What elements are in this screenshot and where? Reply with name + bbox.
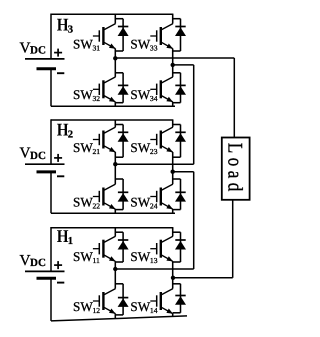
wire diode jog bottom SW34 (173, 102, 181, 104)
wire emitter stub SW21 (114, 152, 116, 164)
svg-text:SW: SW (73, 36, 93, 51)
wire diode jog top SW12 (115, 283, 123, 285)
wire diode branch SW32 (122, 73, 124, 103)
IGBT Q14 (150, 289, 173, 314)
wire emitter stub SW22 (114, 209, 116, 213)
junction node A H3 (113, 56, 117, 60)
wire diode branch SW11 (122, 232, 124, 262)
wire diode jog top SW34 (173, 72, 181, 74)
wire diode branch SW23 (180, 125, 182, 158)
svg-text:23: 23 (150, 147, 158, 156)
wire output A H3 to load bus (115, 57, 234, 59)
wire diode jog bottom SW13 (173, 261, 181, 263)
svg-text:SW: SW (130, 87, 150, 102)
diode D32 (118, 85, 129, 94)
label H1 (57, 226, 73, 247)
label SW14 (130, 299, 157, 315)
label VDC H2 (20, 145, 46, 162)
IGBT Q33 (150, 24, 173, 49)
svg-text:21: 21 (93, 147, 101, 156)
svg-text:SW: SW (130, 36, 150, 51)
svg-text:H: H (57, 226, 69, 246)
svg-text:H: H (57, 120, 69, 140)
wire diode branch SW13 (180, 232, 182, 262)
wire top rail H2 (51, 119, 173, 121)
wire diode jog bottom SW11 (115, 261, 123, 263)
battery minus sign H3 (57, 72, 64, 74)
svg-text:3: 3 (68, 24, 73, 35)
diode D12 (118, 298, 129, 307)
wire output B H2 (173, 171, 194, 173)
diode D31 (118, 27, 129, 37)
wire diode jog bottom SW12 (115, 314, 123, 316)
svg-text:32: 32 (93, 94, 101, 103)
svg-text:11: 11 (93, 256, 101, 265)
wire diode jog top SW13 (173, 231, 181, 233)
svg-text:SW: SW (130, 249, 150, 264)
junction node A H1 (113, 267, 117, 271)
wire diode branch SW24 (180, 179, 182, 210)
wire collector stub SW22 (114, 164, 116, 184)
svg-text:DC: DC (30, 45, 46, 57)
svg-text:22: 22 (93, 201, 101, 210)
wire diode jog top SW31 (115, 18, 123, 20)
svg-text:24: 24 (150, 201, 158, 210)
wire collector stub SW12 (114, 269, 116, 289)
wire left upper H3 (50, 14, 52, 59)
wire diode branch SW14 (180, 284, 182, 313)
junction node B H3 (171, 63, 175, 67)
wire emitter stub SW33 (172, 49, 174, 65)
wire emitter stub SW31 (114, 49, 116, 59)
wire collector stub SW33 (172, 14, 174, 23)
wire diode jog top SW22 (115, 178, 123, 180)
wire diode jog bottom SW21 (115, 156, 123, 158)
wire diode jog top SW23 (173, 124, 181, 126)
wire emitter stub SW23 (172, 152, 174, 172)
wire diode branch SW34 (180, 73, 182, 103)
wire bottom rail H2 (51, 212, 175, 214)
wire output B H1 to load bus (173, 277, 233, 279)
wire diode jog top SW33 (173, 18, 181, 20)
wire bottom rail H3 (51, 105, 175, 107)
diode D11 (118, 240, 129, 250)
wire diode jog bottom SW31 (115, 50, 123, 52)
wire diode branch SW33 (180, 19, 182, 51)
IGBT Q32 (93, 77, 116, 102)
wire diode jog bottom SW22 (115, 209, 123, 211)
junction node B H1 (171, 276, 175, 280)
wire left lower H1 (50, 278, 52, 321)
IGBT Q23 (150, 127, 173, 152)
wire diode jog top SW21 (115, 124, 123, 126)
battery plus sign H2 (54, 154, 62, 162)
svg-text:SW: SW (73, 140, 93, 155)
diode D34 (175, 85, 186, 94)
wire left upper H2 (50, 119, 52, 164)
diode D23 (175, 132, 186, 142)
svg-text:SW: SW (130, 299, 150, 314)
svg-text:SW: SW (73, 299, 93, 314)
svg-text:2: 2 (68, 130, 73, 141)
svg-text:12: 12 (93, 306, 101, 315)
voltage source VDC battery H2 (25, 164, 65, 172)
wire diode jog bottom SW14 (173, 312, 181, 314)
svg-text:SW: SW (73, 194, 93, 209)
wire left lower H2 (50, 172, 52, 213)
label H3 (57, 14, 73, 35)
IGBT Q13 (150, 236, 173, 261)
svg-text:SW: SW (73, 87, 93, 102)
wire cascade bus H2B-H1A (193, 172, 195, 269)
svg-text:Load: Load (224, 143, 247, 196)
svg-text:V: V (20, 145, 31, 162)
label SW21 (73, 140, 100, 156)
label SW12 (73, 299, 100, 315)
svg-text:34: 34 (150, 94, 158, 103)
label SW13 (130, 249, 157, 265)
diode D21 (118, 132, 129, 142)
IGBT Q24 (150, 184, 173, 209)
IGBT Q31 (93, 24, 116, 49)
wire collector stub SW13 (172, 228, 174, 237)
wire diode jog bottom SW23 (173, 156, 181, 158)
wire collector stub SW32 (114, 58, 116, 77)
wire collector stub SW24 (172, 172, 174, 184)
svg-text:1: 1 (68, 236, 73, 247)
wire left lower H3 (50, 69, 52, 107)
wire emitter stub SW13 (172, 261, 174, 278)
label SW33 (130, 36, 157, 52)
wire emitter stub SW32 (114, 102, 116, 107)
IGBT Q22 (93, 184, 116, 209)
wire collector stub SW31 (114, 14, 116, 23)
label SW32 (73, 87, 100, 103)
wire diode jog top SW32 (115, 72, 123, 74)
wire cascade bus H3B-H2A (193, 65, 195, 164)
svg-text:14: 14 (150, 306, 158, 315)
wire collector stub SW23 (172, 120, 174, 127)
load box (222, 138, 250, 200)
diode D14 (175, 296, 186, 305)
wire diode jog top SW24 (173, 178, 181, 180)
wire load bottom bus (232, 200, 234, 278)
svg-text:V: V (20, 252, 31, 269)
wire diode jog bottom SW33 (173, 50, 181, 52)
IGBT Q34 (150, 77, 173, 102)
wire emitter stub SW12 (114, 314, 116, 319)
IGBT Q21 (93, 127, 116, 152)
voltage source VDC battery H3 (25, 59, 65, 69)
svg-text:V: V (20, 39, 31, 56)
wire diode branch SW12 (122, 284, 124, 315)
wire emitter stub SW11 (114, 261, 116, 269)
wire top rail H3 (51, 13, 173, 15)
junction node A H2 (113, 162, 117, 166)
IGBT Q11 (93, 236, 116, 261)
wire collector stub SW11 (114, 228, 116, 237)
wire load top bus (233, 58, 235, 138)
wire diode branch SW31 (122, 19, 124, 51)
wire collector stub SW14 (172, 278, 174, 289)
svg-text:H: H (57, 14, 69, 34)
wire collector stub SW21 (114, 120, 116, 127)
label VDC H1 (20, 252, 46, 269)
label SW24 (130, 194, 157, 210)
wire diode jog bottom SW32 (115, 102, 123, 104)
wire emitter stub SW24 (172, 209, 174, 213)
wire diode jog bottom SW24 (173, 209, 181, 211)
svg-text:13: 13 (150, 256, 158, 265)
svg-text:SW: SW (130, 140, 150, 155)
wire bottom rail H1 (51, 316, 187, 321)
wire output A H1 (115, 268, 193, 270)
battery minus sign H1 (57, 282, 64, 284)
battery plus sign H3 (54, 49, 62, 57)
junction node B H2 (171, 170, 175, 174)
diode D13 (175, 240, 186, 250)
svg-text:DC: DC (30, 150, 46, 162)
wire diode jog top SW11 (115, 231, 123, 233)
diode D24 (175, 192, 186, 201)
battery minus sign H2 (57, 175, 64, 177)
svg-text:SW: SW (73, 249, 93, 264)
label SW34 (130, 87, 157, 103)
diode D33 (175, 27, 186, 37)
wire diode branch SW22 (122, 179, 124, 210)
wire left upper H1 (50, 227, 52, 271)
wire diode branch SW21 (122, 125, 124, 158)
battery plus sign H1 (54, 261, 62, 269)
label SW31 (73, 36, 100, 52)
diode D22 (118, 192, 129, 201)
wire emitter stub SW34 (172, 102, 174, 107)
wire output A H2 (115, 163, 193, 165)
wire top rail H1 (51, 227, 173, 229)
label H2 (57, 120, 73, 141)
wire emitter stub SW14 (172, 314, 174, 317)
wire diode jog top SW14 (173, 283, 181, 285)
label SW23 (130, 140, 157, 156)
svg-text:DC: DC (30, 257, 46, 269)
wire output B H3 (173, 64, 194, 66)
wire collector stub SW34 (172, 65, 174, 77)
voltage source VDC battery H1 (25, 271, 65, 278)
svg-text:SW: SW (130, 194, 150, 209)
label VDC H3 (20, 39, 46, 56)
label SW11 (73, 249, 100, 265)
label SW22 (73, 194, 100, 210)
IGBT Q12 (93, 289, 116, 314)
svg-text:33: 33 (150, 43, 158, 52)
svg-text:31: 31 (93, 43, 101, 52)
